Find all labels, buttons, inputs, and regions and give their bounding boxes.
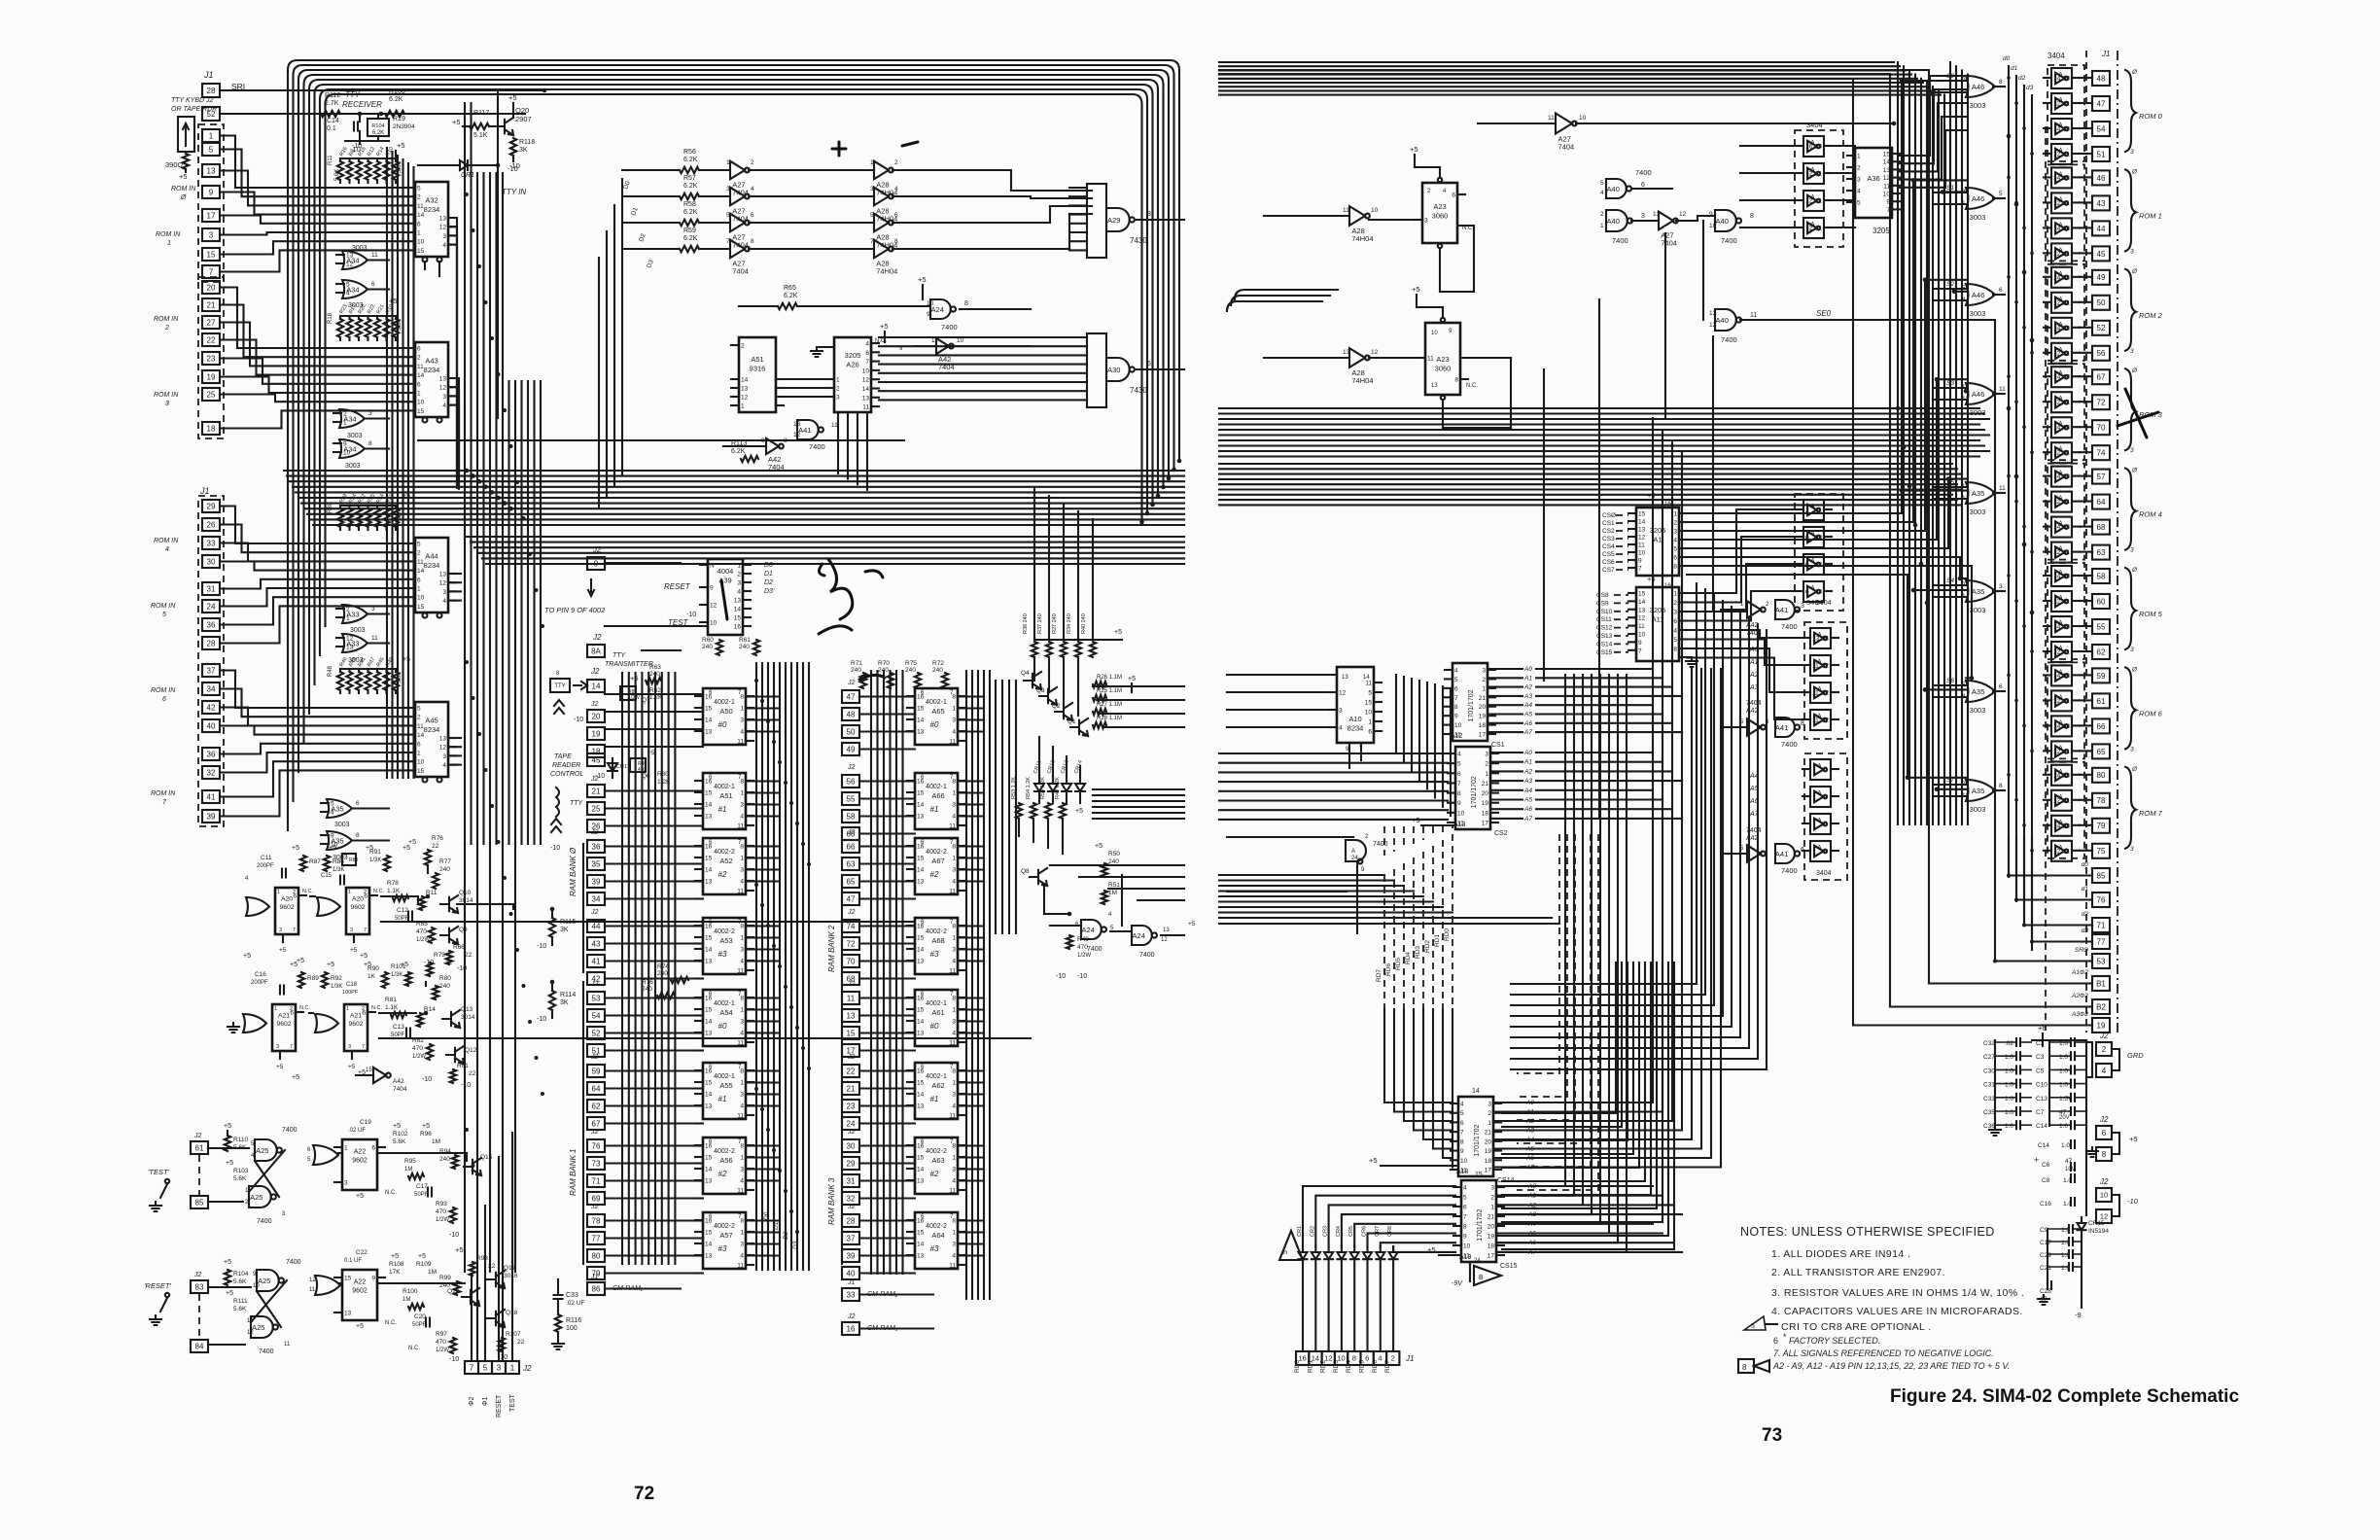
svg-text:#1: #1 — [930, 1095, 939, 1103]
svg-text:*: * — [1783, 1332, 1787, 1342]
buffer cell 3404 ROM3.3 — [2051, 442, 2072, 463]
svg-text:4002-1: 4002-1 — [714, 1073, 735, 1080]
connector J1 pin 21 — [202, 298, 220, 311]
svg-text:49: 49 — [2097, 273, 2106, 282]
svg-text:-10: -10 — [449, 1232, 459, 1239]
svg-text:29: 29 — [207, 502, 216, 510]
svg-text:11: 11 — [949, 968, 956, 975]
svg-text:14: 14 — [2053, 226, 2061, 232]
svg-text:15: 15 — [917, 935, 925, 942]
svg-text:1: 1 — [952, 856, 956, 862]
svg-text:1: 1 — [740, 1080, 744, 1087]
svg-text:17: 17 — [1485, 1168, 1492, 1174]
svg-text:3: 3 — [952, 802, 956, 809]
wire reset arrow — [590, 579, 592, 595]
svg-text:R65: R65 — [784, 285, 796, 292]
svg-text:5: 5 — [1463, 1195, 1467, 1202]
svg-text:12: 12 — [1709, 310, 1717, 317]
svg-text:6: 6 — [1801, 847, 1804, 854]
svg-text:40: 40 — [847, 1269, 856, 1277]
svg-text:47: 47 — [847, 894, 856, 903]
svg-text:15: 15 — [917, 706, 925, 713]
svg-text:J2: J2 — [847, 1313, 856, 1320]
connector J2 pins 21 25 26 — [587, 785, 605, 797]
svg-text:10: 10 — [417, 400, 425, 406]
svg-text:J2: J2 — [847, 1204, 856, 1210]
svg-text:3: 3 — [1673, 529, 1677, 536]
buffer cell A37 #1 — [1803, 500, 1824, 520]
svg-text:11: 11 — [1812, 663, 1819, 670]
svg-text:12: 12 — [1822, 663, 1830, 670]
nand A24d 7400 — [1346, 840, 1366, 861]
wires eprom13 addr — [1490, 752, 1522, 753]
resistor R86 /3K — [324, 856, 330, 871]
svg-text:CS11: CS11 — [1596, 616, 1612, 623]
wire d2 stair — [2024, 836, 2092, 926]
buffer cell 3404 ROM7.3 — [2051, 841, 2072, 861]
svg-text:N.C.: N.C. — [1466, 383, 1478, 389]
svg-text:11: 11 — [2063, 152, 2070, 158]
svg-text:20: 20 — [1479, 704, 1487, 711]
svg-text:3: 3 — [1801, 603, 1804, 610]
svg-text:ROM IN: ROM IN — [154, 392, 179, 399]
svg-text:13: 13 — [1638, 607, 1646, 613]
chip A23a 3060 — [1422, 183, 1457, 243]
svg-text:13: 13 — [2063, 425, 2071, 432]
inverter A42b 7404 — [766, 438, 779, 454]
svg-text:13: 13 — [1653, 211, 1661, 218]
wire — [340, 113, 385, 115]
or-gate A46 3003 #3 — [1966, 383, 1995, 404]
svg-text:N.C.: N.C. — [299, 1005, 310, 1011]
inverter A27 7404 #2 — [730, 188, 745, 206]
svg-text:1M: 1M — [428, 1269, 437, 1276]
or-gate A35 3003 #5 — [1966, 580, 1995, 602]
svg-text:13: 13 — [2063, 374, 2071, 381]
svg-text:11: 11 — [949, 1113, 956, 1120]
buffer cell 3404 ROM0.0 — [2051, 68, 2072, 88]
svg-text:3: 3 — [952, 947, 956, 954]
connector J1 pin 34 — [202, 682, 220, 695]
inverter A42 7404 — [936, 338, 949, 354]
svg-text:3: 3 — [952, 1242, 956, 1248]
buffer cell 3404 ROM4.0 — [2051, 467, 2072, 487]
svg-text:13: 13 — [2063, 822, 2071, 829]
svg-text:3: 3 — [165, 401, 169, 407]
svg-text:N.C.: N.C. — [371, 1005, 382, 1011]
svg-text:20: 20 — [1485, 1138, 1492, 1145]
svg-text:59: 59 — [592, 1067, 601, 1075]
svg-text:A41: A41 — [1775, 606, 1788, 614]
svg-text:R98: R98 — [476, 1255, 488, 1262]
wire inv2 to ladder — [892, 169, 1011, 171]
svg-text:14: 14 — [2053, 822, 2061, 829]
svg-text:Ø: Ø — [2131, 567, 2138, 574]
RAM chip A55 4002-1 — [703, 1063, 746, 1119]
svg-text:4002-1: 4002-1 — [714, 699, 735, 706]
resistor R89 — [298, 972, 304, 988]
svg-text:5: 5 — [1460, 1110, 1464, 1117]
svg-text:10: 10 — [1460, 1158, 1468, 1165]
svg-text:CS2: CS2 — [1494, 830, 1508, 837]
wire TEST — [605, 625, 708, 627]
svg-text:18: 18 — [1482, 810, 1489, 817]
connector J1 pin 52 — [2092, 321, 2110, 335]
svg-text:14: 14 — [2053, 723, 2061, 730]
svg-text:-10: -10 — [352, 143, 362, 150]
svg-text:1: 1 — [740, 935, 744, 942]
svg-text:R104: R104 — [233, 1271, 249, 1277]
svg-text:26: 26 — [207, 520, 216, 529]
svg-text:4004: 4004 — [717, 567, 734, 576]
svg-text:7400: 7400 — [1721, 335, 1737, 344]
buffer cell 3404 ROM3.1 — [2051, 392, 2072, 412]
svg-text:4: 4 — [740, 1253, 744, 1260]
svg-text:R27 240: R27 240 — [1052, 613, 1058, 634]
svg-text:7: 7 — [1638, 566, 1642, 573]
svg-text:A2: A2 — [1523, 768, 1532, 775]
RAM chip A68 4002-2 — [915, 918, 958, 974]
svg-text:3003: 3003 — [1970, 706, 1986, 715]
svg-text:13: 13 — [862, 395, 870, 402]
svg-text:15: 15 — [207, 250, 216, 259]
svg-text:17: 17 — [1487, 1253, 1495, 1260]
svg-text:C21: C21 — [2040, 1265, 2051, 1272]
svg-text:14: 14 — [2053, 76, 2061, 83]
svg-text:7404: 7404 — [768, 463, 785, 472]
svg-text:A61: A61 — [931, 1008, 944, 1017]
svg-text:TEST: TEST — [509, 1393, 516, 1412]
dashed group box ROM7 — [2047, 762, 2084, 858]
svg-text:8234: 8234 — [424, 366, 440, 374]
svg-text:#1: #1 — [718, 805, 727, 814]
svg-text:14: 14 — [2053, 325, 2061, 332]
svg-text:J2: J2 — [2099, 1032, 2109, 1040]
svg-text:84: 84 — [195, 1342, 204, 1350]
svg-text:72: 72 — [2097, 399, 2106, 407]
svg-text:14: 14 — [917, 1167, 925, 1173]
RAM chip A64 4002-2 — [915, 1212, 958, 1269]
svg-text:R34 240: R34 240 — [1067, 613, 1072, 634]
svg-text:A46: A46 — [1972, 291, 1984, 299]
wire verticals to eprom12 — [1395, 675, 1397, 752]
svg-text:49: 49 — [847, 745, 856, 753]
handwritten cross mark — [2117, 389, 2158, 437]
connector J1 pin 76 (d1) — [2092, 892, 2110, 907]
wire A1phi drops — [1219, 70, 2092, 1026]
svg-text:1: 1 — [346, 1006, 349, 1012]
svg-text:11: 11 — [931, 337, 938, 344]
svg-text:R108: R108 — [389, 1261, 404, 1268]
inductor TTY — [556, 787, 559, 817]
svg-text:5: 5 — [417, 706, 421, 713]
dashed group box ROM6 — [2047, 662, 2084, 758]
chevrons — [554, 700, 564, 714]
svg-text:14: 14 — [705, 802, 713, 809]
svg-text:1.2K: 1.2K — [657, 779, 671, 786]
svg-text:C13: C13 — [393, 1024, 404, 1031]
connector J1 pin 60 — [2092, 594, 2110, 609]
wire bus V2 longest — [476, 1272, 478, 1361]
svg-text:#2: #2 — [718, 1170, 727, 1178]
svg-text:R110: R110 — [233, 1137, 248, 1143]
svg-text:1: 1 — [952, 706, 956, 713]
svg-text:+5: +5 — [226, 1290, 233, 1297]
resistor bank above A44 — [340, 505, 396, 507]
svg-text:12: 12 — [439, 385, 447, 392]
svg-text:A: A — [1818, 790, 1822, 796]
connector J2 pin 52 — [202, 107, 220, 121]
svg-text:A24: A24 — [1133, 931, 1145, 940]
svg-text:74H04: 74H04 — [1351, 234, 1373, 243]
svg-text:14: 14 — [917, 1092, 925, 1099]
buffer cell 3404 ROM5.3 — [2051, 642, 2072, 662]
svg-text:CS5: CS5 — [1602, 551, 1615, 558]
chip A23b 3060 — [1425, 323, 1460, 395]
svg-text:12: 12 — [2053, 101, 2061, 108]
svg-text:78: 78 — [2097, 796, 2106, 805]
svg-text:11: 11 — [1815, 171, 1822, 178]
connector J1 pin 15 — [202, 248, 220, 261]
svg-text:CS6: CS6 — [1602, 559, 1615, 566]
svg-text:12: 12 — [439, 745, 447, 752]
svg-text:A4: A4 — [1523, 787, 1532, 794]
buffer cell 3404 ROM3.2 — [2051, 417, 2072, 437]
svg-text:3: 3 — [442, 394, 446, 401]
svg-text:50PF: 50PF — [412, 1322, 427, 1328]
svg-text:4: 4 — [737, 589, 741, 596]
svg-text:R40 240: R40 240 — [1081, 613, 1087, 634]
svg-text:5: 5 — [726, 212, 730, 219]
svg-text:1/2W: 1/2W — [628, 695, 640, 701]
svg-text:12: 12 — [1638, 615, 1646, 622]
svg-text:7404: 7404 — [393, 1086, 407, 1093]
svg-text:A46: A46 — [1972, 390, 1984, 399]
svg-text:72: 72 — [847, 939, 856, 948]
svg-text:4: 4 — [952, 959, 956, 965]
brace ROM2 — [2125, 269, 2136, 351]
svg-text:5: 5 — [1857, 200, 1861, 207]
svg-text:60: 60 — [2097, 597, 2106, 606]
svg-text:36: 36 — [207, 750, 216, 758]
buffer cell 3404 ROM6.3 — [2051, 741, 2072, 761]
buffer cell A39 #4 — [1810, 841, 1831, 861]
svg-text:12: 12 — [309, 1277, 316, 1283]
connector J1 pin 71 (d2) — [2092, 918, 2110, 932]
svg-text:A54: A54 — [719, 1008, 732, 1017]
svg-text:74H04: 74H04 — [876, 266, 897, 275]
svg-text:15: 15 — [917, 1007, 925, 1014]
wire bus chipleft vertical — [386, 148, 388, 778]
wire bus H — [1219, 874, 1384, 876]
wires A24 pair — [1110, 930, 1132, 932]
svg-text:10: 10 — [343, 450, 351, 457]
svg-text:6: 6 — [1454, 685, 1458, 692]
svg-text:N.C.: N.C. — [385, 1190, 397, 1196]
or-gate A34b — [342, 280, 367, 298]
wire A23a in — [1369, 219, 1422, 221]
svg-text:1: 1 — [952, 1007, 956, 1014]
svg-text:-10: -10 — [422, 1076, 432, 1083]
buffer cell 3404 ROM7.1 — [2051, 790, 2072, 811]
svg-text:6: 6 — [1460, 1120, 1464, 1127]
buffer cell 3404 ROM7.2 — [2051, 816, 2072, 836]
svg-text:A7: A7 — [1523, 816, 1532, 822]
wire Q8 down — [1043, 887, 1045, 914]
svg-text:3: 3 — [740, 1167, 744, 1173]
svg-text:+5: +5 — [455, 1245, 464, 1254]
nand A41c 7400 — [1775, 717, 1795, 737]
svg-text:6.2K: 6.2K — [389, 96, 403, 103]
svg-text:21: 21 — [1485, 1130, 1492, 1137]
svg-text:8: 8 — [751, 238, 754, 245]
svg-text:1: 1 — [343, 420, 347, 427]
svg-text:Φ2: Φ2 — [469, 1396, 475, 1406]
svg-text:R54 1.2K: R54 1.2K — [1026, 777, 1032, 799]
svg-text:3: 3 — [344, 1180, 348, 1187]
svg-text:J2: J2 — [590, 981, 599, 988]
resistor bank above A43 — [340, 315, 396, 317]
svg-text:12: 12 — [2053, 599, 2061, 606]
svg-text:S4: S4 — [1946, 577, 1954, 584]
svg-text:R118: R118 — [519, 139, 535, 146]
svg-text:11: 11 — [1343, 207, 1349, 214]
svg-text:11: 11 — [1999, 485, 2006, 492]
or-gate A46 3003 #2 — [1966, 284, 1995, 305]
wire bus eprom right grid — [1511, 583, 1697, 984]
svg-text:A22: A22 — [354, 1149, 367, 1156]
svg-text:A46: A46 — [1972, 194, 1984, 203]
svg-text:13: 13 — [346, 645, 354, 651]
wire RD to eprom stairs — [1384, 1009, 1452, 1102]
transistor Q15 — [464, 1158, 481, 1175]
svg-text:+5: +5 — [1410, 145, 1418, 154]
svg-text:14: 14 — [1472, 1088, 1480, 1095]
svg-text:N: N — [710, 563, 715, 570]
svg-text:1: 1 — [167, 240, 171, 247]
svg-text:A3: A3 — [1523, 693, 1532, 700]
svg-text:+5: +5 — [348, 1064, 356, 1070]
svg-text:15: 15 — [917, 856, 925, 862]
wire arrows TTY — [574, 682, 587, 689]
svg-text:8A: 8A — [591, 647, 601, 655]
connector J1 pin 7 — [202, 265, 220, 278]
svg-text:11: 11 — [417, 723, 424, 730]
svg-text:14: 14 — [1822, 636, 1830, 643]
svg-text:10: 10 — [1371, 207, 1379, 214]
svg-text:4: 4 — [952, 1178, 956, 1185]
svg-text:A3Φ2: A3Φ2 — [2071, 1011, 2088, 1018]
buffer cell 3404 ROM2.3 — [2051, 343, 2072, 364]
svg-text:CS9: CS9 — [1596, 600, 1609, 607]
svg-text:3060: 3060 — [1435, 365, 1452, 373]
svg-text:C14: C14 — [2038, 1142, 2049, 1149]
svg-text:40: 40 — [207, 721, 216, 730]
svg-text:1M: 1M — [402, 1297, 410, 1303]
svg-text:11: 11 — [1638, 542, 1645, 549]
svg-text:14: 14 — [734, 607, 742, 613]
svg-text:13: 13 — [439, 216, 447, 223]
svg-text:A23: A23 — [1433, 202, 1446, 211]
svg-text:CS8: CS8 — [1596, 592, 1609, 599]
svg-text:24: 24 — [847, 1119, 856, 1128]
svg-text:1.0: 1.0 — [2059, 1054, 2068, 1061]
svg-text:1: 1 — [417, 391, 421, 398]
wire A1 outputs to S gates — [1687, 81, 1902, 513]
svg-text:13: 13 — [2063, 723, 2071, 730]
svg-text:D1: D1 — [764, 571, 773, 577]
or-gate A46 3003 #1 — [1966, 188, 1995, 209]
svg-text:14: 14 — [917, 1242, 925, 1248]
svg-text:6.2K: 6.2K — [683, 235, 698, 242]
svg-text:11: 11 — [371, 252, 378, 259]
svg-text:1/3K: 1/3K — [332, 867, 344, 873]
svg-text:2N3904: 2N3904 — [393, 123, 415, 130]
svg-text:11: 11 — [2063, 299, 2070, 306]
svg-text:3: 3 — [1482, 668, 1486, 675]
svg-text:11: 11 — [2063, 350, 2070, 357]
svg-text:R18: R18 — [328, 312, 333, 324]
svg-text:5: 5 — [1999, 191, 2003, 197]
svg-text:+5: +5 — [418, 1253, 426, 1260]
RAM chip A65 4002-1 — [915, 688, 958, 745]
svg-text:7: 7 — [1457, 781, 1461, 787]
svg-text:A20: A20 — [352, 895, 364, 902]
svg-text:+5: +5 — [1188, 921, 1196, 927]
svg-text:13: 13 — [917, 814, 925, 821]
svg-text:28: 28 — [207, 639, 216, 647]
wires eprom18 addr — [1493, 1102, 1524, 1103]
svg-text:17: 17 — [207, 211, 216, 220]
svg-text:77: 77 — [592, 1234, 601, 1242]
svg-text:3205: 3205 — [845, 351, 861, 360]
svg-text:11: 11 — [1883, 183, 1890, 190]
svg-text:10: 10 — [710, 620, 717, 627]
note 5 flag — [1744, 1316, 1766, 1330]
svg-text:1M: 1M — [432, 1138, 440, 1145]
svg-text:240: 240 — [932, 667, 943, 674]
svg-text:13: 13 — [2063, 574, 2071, 580]
inverter A28 74H04 #3 — [874, 214, 889, 232]
svg-text:2: 2 — [1482, 677, 1486, 683]
svg-text:1: 1 — [740, 1155, 744, 1162]
svg-text:CR5: CR5 — [1348, 1226, 1354, 1237]
A51 right pins — [776, 378, 784, 380]
svg-text:3: 3 — [1999, 583, 2003, 590]
svg-text:19: 19 — [592, 729, 601, 738]
svg-text:6: 6 — [1463, 1205, 1467, 1211]
svg-text:12: 12 — [2053, 350, 2061, 357]
svg-text:5: 5 — [1282, 1250, 1289, 1254]
svg-text:A12: A12 — [1451, 733, 1463, 740]
svg-text:1: 1 — [870, 159, 874, 166]
svg-text:31: 31 — [207, 584, 216, 593]
svg-text:R58: R58 — [683, 201, 696, 208]
svg-text:R80: R80 — [439, 975, 451, 982]
wire bus G — [1219, 752, 1448, 754]
svg-text:ROM 0: ROM 0 — [2139, 112, 2163, 121]
svg-text:C32: C32 — [1983, 1040, 1995, 1047]
svg-text:+5: +5 — [630, 674, 639, 682]
svg-text:A41: A41 — [1775, 723, 1788, 732]
svg-text:470: 470 — [412, 1045, 423, 1052]
svg-text:3016: 3016 — [504, 1273, 518, 1279]
svg-text:12: 12 — [793, 432, 801, 438]
svg-text:R116: R116 — [566, 1317, 581, 1324]
inverter A28b 74H04 — [1349, 348, 1365, 367]
svg-text:20V: 20V — [2059, 1115, 2070, 1121]
svg-text:3: 3 — [740, 802, 744, 809]
